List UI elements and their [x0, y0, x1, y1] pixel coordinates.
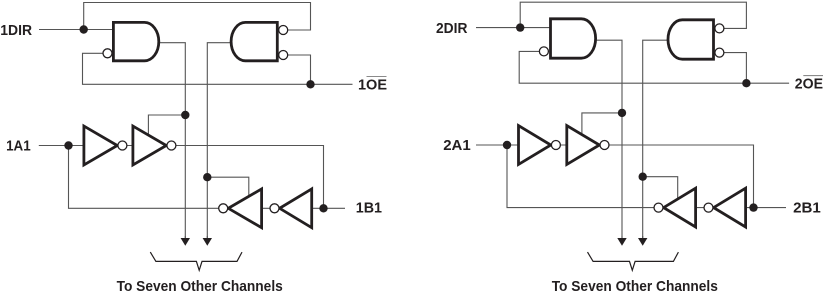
svg-text:2DIR: 2DIR: [436, 20, 467, 37]
svg-text:2A1: 2A1: [443, 137, 471, 154]
svg-text:1DIR: 1DIR: [0, 22, 32, 39]
svg-text:2OE: 2OE: [795, 75, 823, 92]
svg-text:To Seven Other Channels: To Seven Other Channels: [117, 278, 283, 293]
svg-text:1B1: 1B1: [356, 200, 383, 217]
svg-text:To Seven Other Channels: To Seven Other Channels: [552, 278, 718, 293]
svg-text:1A1: 1A1: [6, 137, 31, 154]
svg-text:1OE: 1OE: [358, 76, 387, 93]
svg-text:2B1: 2B1: [793, 200, 821, 217]
